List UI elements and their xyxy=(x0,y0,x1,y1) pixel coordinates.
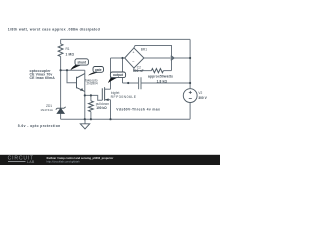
labels xyxy=(40,47,207,112)
svg-text:BR1: BR1 xyxy=(141,47,147,51)
wire left rail mid xyxy=(60,56,62,108)
wire right rail lower xyxy=(189,102,191,119)
svg-text:output: output xyxy=(113,73,124,77)
wire M1 drain to output node xyxy=(110,58,112,89)
svg-text:thefixar / lamp control and se: thefixar / lamp control and sensing_p030… xyxy=(47,156,114,160)
transistor Q1 emitter arrow xyxy=(80,88,83,91)
mosfet M1 arrow xyxy=(105,98,109,101)
svg-text:approx50watts: approx50watts xyxy=(148,75,173,79)
junction ground bus / emitter xyxy=(84,118,86,120)
wire shunt node xyxy=(61,69,85,71)
junction ground bus / pulldown xyxy=(90,118,92,120)
svg-text:1 MΩ: 1 MΩ xyxy=(66,52,75,56)
resistor R1 xyxy=(58,44,63,57)
junction ground bus / source xyxy=(109,118,111,120)
wire cap net left xyxy=(123,82,139,84)
junction shunt wire / base drop xyxy=(66,69,68,71)
wire shunt vertical collector-emitter xyxy=(84,70,86,119)
svg-text:http://circuitlab.com/cgkktah: http://circuitlab.com/cgkktah xyxy=(47,160,81,164)
mosfet M1 bigfet xyxy=(101,88,103,100)
junction right rail / cap net xyxy=(189,82,191,84)
capacitor C2 xyxy=(138,77,140,89)
wire junction arrow mark xyxy=(171,56,174,61)
junction emitter / gate net xyxy=(84,94,86,96)
svg-text:2N3904: 2N3904 xyxy=(87,82,98,86)
voltage source V2 xyxy=(183,89,197,103)
svg-text:LAB: LAB xyxy=(27,160,35,164)
junction left rail / shunt wire xyxy=(60,69,62,71)
junction output node / C2 branch xyxy=(121,57,123,59)
diode bridge BR1 xyxy=(125,48,144,68)
resistor R2 1.8k xyxy=(151,69,163,73)
svg-text:100 kΩ: 100 kΩ xyxy=(96,106,107,110)
annotation output callout xyxy=(108,72,126,83)
wire 1.8k lead xyxy=(134,68,152,71)
wire left rail below zener xyxy=(60,113,62,119)
annotation shunt callout xyxy=(70,59,88,70)
wire top bus xyxy=(61,38,191,40)
wire base drop xyxy=(67,70,77,83)
ground GND xyxy=(80,124,89,129)
wire bottom bus xyxy=(61,118,191,120)
wire bridge top loop xyxy=(134,46,172,71)
svg-text:300 V: 300 V xyxy=(198,96,207,100)
resistor R3 pulldown xyxy=(89,101,94,112)
junction right rail / bridge output xyxy=(189,57,191,59)
transistor Q1 fakeopto 2N3904 xyxy=(76,77,78,89)
junction gate net / pulldown xyxy=(90,94,92,96)
wire left rail top lead xyxy=(60,39,62,43)
wire output node horizontal xyxy=(111,57,125,59)
junction cap net xyxy=(127,82,129,84)
wire right rail upper xyxy=(189,39,191,88)
svg-text:+: + xyxy=(132,51,134,55)
resistor R3 pulldown leads xyxy=(90,95,92,101)
svg-text:V2: V2 xyxy=(198,91,202,95)
svg-text:500 nF: 500 nF xyxy=(133,69,144,73)
svg-text:Vds60V-Thresh 4v max: Vds60V-Thresh 4v max xyxy=(116,108,160,112)
wire M1 source to ground bus xyxy=(110,100,112,120)
wire bridge right to rail xyxy=(144,57,190,59)
svg-text:gate: gate xyxy=(95,68,102,72)
zener diode ZD1 xyxy=(56,107,66,114)
wire cap net right xyxy=(141,82,190,84)
annotation gate callout xyxy=(88,67,103,76)
svg-text:shunt: shunt xyxy=(77,60,87,64)
wire C2 branch vertical xyxy=(122,58,124,83)
svg-text:5.6v - opto protection: 5.6v - opto protection xyxy=(18,124,61,128)
svg-text:1/8th watt, worst case approx: 1/8th watt, worst case approx .088w diss… xyxy=(8,27,100,31)
svg-text:RFP30N06LE: RFP30N06LE xyxy=(111,95,137,99)
svg-text:CE Imax 60mA: CE Imax 60mA xyxy=(30,76,56,80)
ground GND stub xyxy=(84,119,86,124)
svg-text:R1: R1 xyxy=(66,47,70,51)
svg-text:1N4741A: 1N4741A xyxy=(40,108,53,112)
svg-text:1.8 kΩ: 1.8 kΩ xyxy=(157,79,168,83)
footer bar xyxy=(0,155,220,165)
wire gate net xyxy=(85,95,103,100)
